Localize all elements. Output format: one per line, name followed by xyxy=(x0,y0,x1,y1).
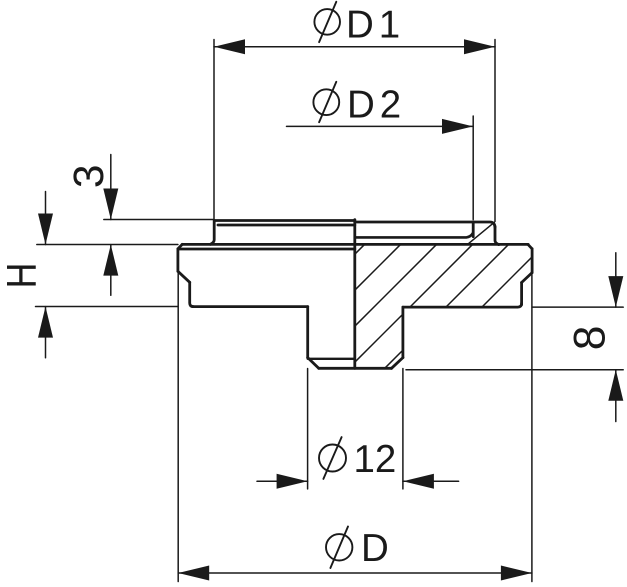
part outline: body left notch chamfer xyxy=(178,271,190,282)
dimension H line upper segment xyxy=(45,192,47,245)
dimension phi12 right arrowhead xyxy=(403,474,434,489)
part outline: recess floor line B (section) xyxy=(355,233,473,237)
part outline: section cut edge at centerline xyxy=(353,220,356,369)
hatch line c717 body part xyxy=(410,245,472,307)
label ⌀D2: phi circle xyxy=(313,89,339,115)
dimension D2 line xyxy=(287,125,474,127)
svg-text:8: 8 xyxy=(566,326,615,351)
dimension 3 / H shared extension line xyxy=(37,244,178,246)
dimension phi12 line right segment xyxy=(403,480,459,482)
dimension H line lower segment xyxy=(45,307,47,358)
part outline: boss top surface right half (section) xyxy=(355,222,495,228)
hatch line c645 xyxy=(355,245,401,291)
label ⌀D: phi circle xyxy=(326,534,352,560)
part outline: D2 step vertical in section xyxy=(472,222,475,237)
svg-text:D1: D1 xyxy=(346,4,405,47)
dimension H bottom extension line xyxy=(36,306,178,308)
dimension D right extension line xyxy=(531,273,533,582)
dimension 8 line lower segment xyxy=(615,370,617,422)
part outline: body top surface xyxy=(182,243,528,246)
dimension 3 top extension line xyxy=(104,219,214,221)
svg-text:D: D xyxy=(361,527,389,570)
part outline: body right edge xyxy=(531,249,534,273)
dimension D2 arrowhead xyxy=(442,119,473,134)
dimension D1 left arrowhead xyxy=(214,39,245,54)
dimension D left extension line xyxy=(177,272,179,582)
part outline: boss top surface left half xyxy=(215,219,355,222)
label ⌀D1: phi circle xyxy=(314,9,340,35)
hatch line c609 xyxy=(355,245,365,255)
hatch line c789 xyxy=(482,257,532,307)
svg-text:H: H xyxy=(0,263,46,289)
dimension 3 line upper segment xyxy=(110,155,112,220)
part outline: body top inner crest line left xyxy=(178,248,355,251)
dimension D line xyxy=(178,572,532,574)
dimension 8 top extension line xyxy=(532,306,623,308)
part outline: body right notch chamfer xyxy=(522,273,533,283)
label ⌀12: phi slash xyxy=(323,437,341,479)
dimension H upper arrowhead xyxy=(38,214,53,245)
svg-text:D2: D2 xyxy=(347,84,406,127)
dimension 3 lower arrowhead xyxy=(103,245,118,276)
part outline: body bottom left segment xyxy=(193,305,308,308)
dimension phi12 left extension line xyxy=(307,369,309,489)
dimension H lower arrowhead xyxy=(38,307,53,338)
dimension 8 line upper segment xyxy=(615,253,617,307)
label ⌀D1: phi slash xyxy=(319,2,336,42)
part outline: body bottom right segment xyxy=(403,303,522,307)
part outline: body top-right corner chamfer xyxy=(528,245,532,249)
dimension 8 lower arrowhead xyxy=(608,370,623,401)
dimension D1 line xyxy=(214,46,495,48)
part outline: hub right edge (section) xyxy=(401,307,404,358)
part outline: hub chamfer crest line left xyxy=(308,358,355,360)
dimension D right arrowhead xyxy=(501,566,532,581)
hatch line c717 boss ring part xyxy=(468,222,495,244)
dimension phi12 right extension line xyxy=(402,369,404,489)
label ⌀D: phi slash xyxy=(330,527,348,569)
dimension phi12 left arrowhead xyxy=(277,474,308,489)
part outline: body left lower edge xyxy=(190,282,194,306)
label ⌀D2: phi slash xyxy=(319,82,336,122)
part outline: body right lower edge xyxy=(520,283,523,305)
hatch line c753 hub part xyxy=(385,350,403,368)
dimension D left arrowhead xyxy=(178,566,209,581)
dimension D1 right extension line xyxy=(494,40,496,222)
dimension D1 right arrowhead xyxy=(464,39,495,54)
dimension 3 upper arrowhead xyxy=(103,189,118,220)
svg-text:3: 3 xyxy=(66,164,113,188)
part outline: hub left bottom chamfer xyxy=(308,358,319,369)
part outline: boss left edge xyxy=(210,220,214,244)
dimension 8 bottom extension line xyxy=(406,369,623,371)
dimension D1 left extension line xyxy=(213,40,215,221)
dimension 3 line lower segment xyxy=(110,245,112,296)
dimension 8 upper arrowhead xyxy=(608,276,623,307)
dimension D2 extension line xyxy=(472,116,474,220)
hatch line c681 xyxy=(355,245,437,327)
part outline: hub left edge xyxy=(306,307,309,358)
label ⌀12: phi circle xyxy=(319,445,346,472)
part outline: boss right edge (section) xyxy=(495,227,499,245)
part outline: hub bottom face xyxy=(319,367,392,370)
part outline: body left edge xyxy=(176,249,179,271)
hatch line c753 body part xyxy=(446,245,508,307)
svg-text:12: 12 xyxy=(354,438,397,481)
part outline: boss inner crest line left xyxy=(218,224,355,227)
dimension phi12 line left segment xyxy=(257,480,308,482)
hatch line c717 hub part xyxy=(355,314,403,362)
part outline: body top-left corner chamfer xyxy=(178,244,182,248)
part outline: hub right bottom chamfer (section) xyxy=(392,358,403,369)
